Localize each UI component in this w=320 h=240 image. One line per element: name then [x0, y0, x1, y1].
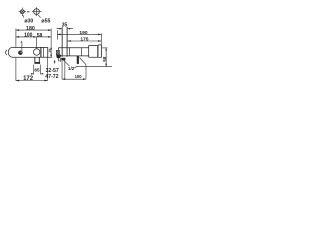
- svg-text:172: 172: [23, 76, 34, 82]
- top detail: large hole circle ø55: [32, 7, 42, 16]
- svg-text:190: 190: [79, 30, 87, 36]
- leader to 1/2 label: [61, 58, 69, 66]
- small wedge mark: [59, 60, 61, 62]
- body seam thick: [40, 47, 42, 57]
- spout pipe end nut: [61, 58, 65, 61]
- dimension line 100: [16, 36, 37, 38]
- dim 85 line: [105, 48, 107, 66]
- end foot line: [48, 56, 52, 58]
- svg-text:47-72: 47-72: [45, 74, 58, 80]
- dimension line 175: [68, 40, 102, 42]
- svg-text:175: 175: [80, 37, 88, 43]
- dimension line 180: [16, 29, 51, 31]
- centreline small hole with tick: [21, 41, 22, 51]
- side body bottom edge: [61, 55, 89, 57]
- leader for ø55 label: [38, 15, 40, 18]
- dimension line 58: [36, 36, 51, 38]
- dim 65 outside arrows: [31, 73, 43, 75]
- svg-text:ø55: ø55: [41, 18, 50, 24]
- outlet lips: [59, 58, 61, 61]
- jogged extension from pipe: [80, 58, 86, 80]
- supply pipe below large hole: [35, 57, 39, 64]
- dimension line 190: [57, 33, 101, 35]
- dimension line 172: [16, 80, 48, 82]
- svg-text:47: 47: [48, 49, 52, 53]
- bottom reference line: [76, 66, 112, 68]
- left extension line: [15, 29, 17, 81]
- right extension below body: [47, 57, 49, 81]
- dim 85 top extension: [102, 47, 108, 49]
- front view body outline: [12, 47, 48, 57]
- centreline through large hole: [35, 37, 37, 53]
- svg-text:ø30: ø30: [24, 18, 33, 24]
- wall side pipe: [77, 56, 79, 64]
- svg-text:1/2": 1/2": [68, 66, 77, 71]
- centreline dash between circles: [27, 11, 29, 13]
- top detail: small hole circle ø30: [19, 8, 26, 16]
- svg-text:58: 58: [37, 33, 43, 39]
- outer small arc at spout tip: [6, 50, 7, 55]
- wall line: [100, 45, 102, 58]
- small up arrow mark: [54, 61, 56, 64]
- pipe nut dark: [35, 62, 41, 64]
- dim 65 extension lines: [34, 65, 41, 75]
- svg-text:65: 65: [34, 68, 40, 74]
- dim 100 extensions: [62, 60, 65, 79]
- collar block: [89, 45, 98, 57]
- right extension / vertical dim line: [50, 29, 52, 58]
- left extension for 190: [56, 30, 58, 39]
- svg-text:100: 100: [75, 74, 83, 79]
- wall flange: [98, 45, 101, 58]
- body seam b: [81, 48, 83, 56]
- outlet mouth dark: [56, 55, 61, 58]
- svg-text:85: 85: [102, 57, 107, 63]
- dimension line 100: [62, 78, 86, 80]
- body seam thin: [42, 47, 44, 57]
- outlet box: [56, 50, 59, 54]
- outlet box cross: [57, 51, 60, 55]
- body seam a: [68, 48, 70, 56]
- dim 35 outside arrows: [57, 28, 73, 30]
- side body top edge: [58, 47, 88, 49]
- leader for ø30 label: [23, 15, 24, 18]
- outlet left end drop: [57, 48, 59, 51]
- body left rounded cap: [8, 47, 12, 57]
- right extension for 190/175: [100, 33, 102, 45]
- svg-text:100: 100: [24, 32, 33, 38]
- small hole (dark) in body: [19, 51, 23, 55]
- svg-text:180: 180: [26, 26, 35, 32]
- large hole in body: [34, 49, 40, 55]
- spout column walls: [62, 27, 67, 57]
- svg-text:35: 35: [62, 23, 68, 29]
